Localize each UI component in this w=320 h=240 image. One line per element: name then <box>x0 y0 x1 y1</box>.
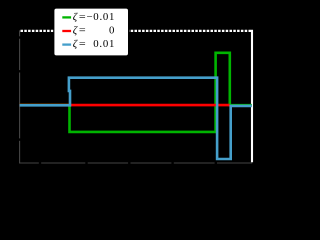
svg-text:ζ: ζ <box>73 25 78 37</box>
svg-text:=: = <box>79 11 86 23</box>
svg-text:0.01: 0.01 <box>93 38 115 50</box>
svg-text:−0.01: −0.01 <box>86 11 115 23</box>
svg-text:=: = <box>79 38 86 50</box>
svg-text:0: 0 <box>109 25 115 37</box>
svg-text:ζ: ζ <box>73 11 78 23</box>
svg-text:ζ: ζ <box>73 38 78 50</box>
svg-text:=: = <box>79 25 86 37</box>
